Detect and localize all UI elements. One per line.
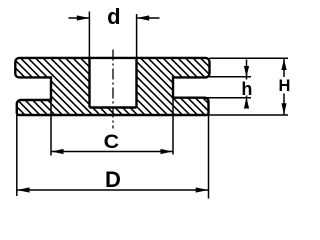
svg-text:D: D <box>105 167 121 192</box>
svg-text:H: H <box>278 77 290 95</box>
svg-text:C: C <box>104 132 120 153</box>
svg-text:h: h <box>241 79 252 99</box>
svg-text:d: d <box>107 4 120 29</box>
